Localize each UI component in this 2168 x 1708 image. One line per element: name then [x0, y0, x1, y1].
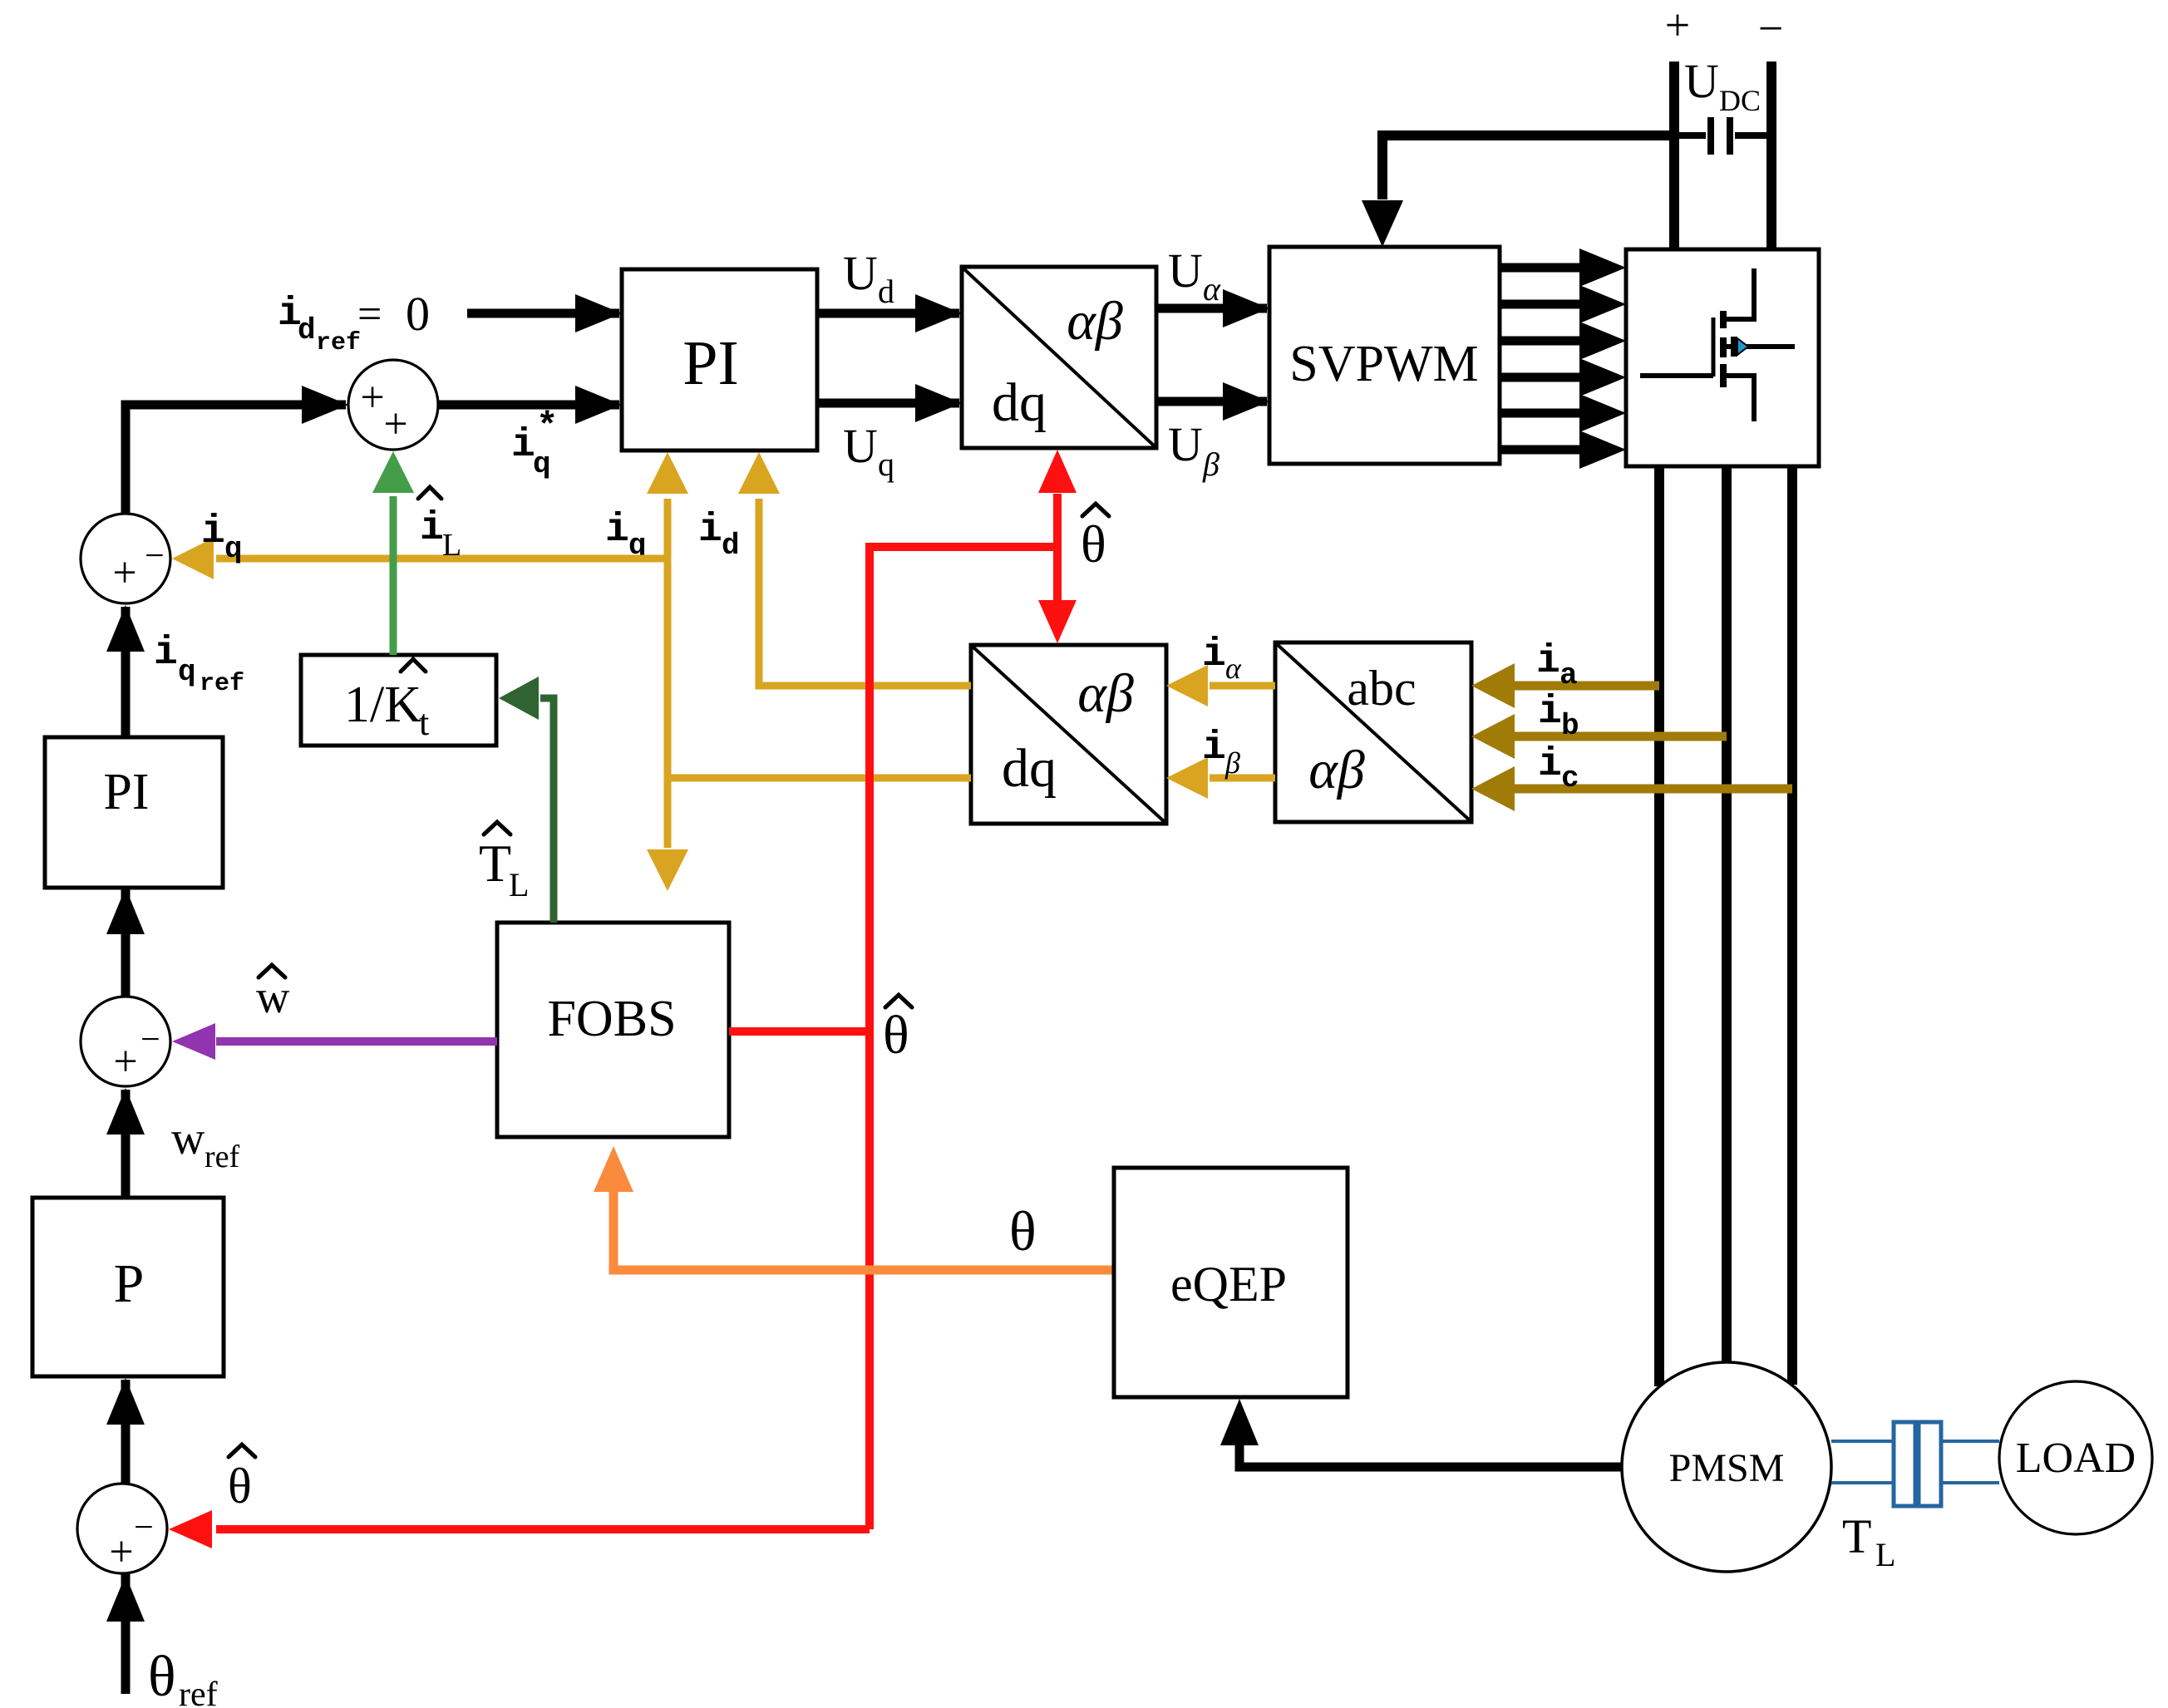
svg-text:PMSM: PMSM — [1669, 1446, 1785, 1490]
wire theta_ref input — [106, 1573, 145, 1694]
sign + in S3 — [113, 1038, 137, 1085]
svg-text:+: + — [360, 374, 384, 421]
svg-text:FOBS: FOBS — [547, 991, 676, 1047]
label U_q — [843, 419, 894, 483]
wire S2 to S1 — [126, 386, 348, 514]
DC bus negative rail — [1766, 62, 1776, 249]
wire i_a tap to abc box — [1471, 663, 1659, 708]
svg-text:−: − — [145, 537, 165, 575]
svg-text:i: i — [511, 423, 535, 468]
svg-text:d: d — [298, 313, 316, 347]
wire i_alpha abc to ab-dq box — [1166, 665, 1275, 706]
svg-text:i: i — [1202, 633, 1226, 677]
wire speed PI to S2 (i_q_ref) — [106, 605, 145, 737]
svg-text:U: U — [1684, 54, 1719, 108]
label U_DC — [1684, 54, 1761, 117]
block PI speed controller — [45, 737, 223, 888]
svg-text:i: i — [1538, 742, 1562, 787]
wire PMSM to eQEP — [1220, 1399, 1622, 1467]
svg-text:U: U — [843, 246, 878, 300]
svg-text:U: U — [843, 419, 878, 473]
label i_d_ref = 0 — [278, 287, 430, 357]
svg-text:αβ: αβ — [1308, 740, 1365, 800]
wire S1 to current PI (i_q*) — [438, 386, 622, 424]
label theta hat at S4 — [228, 1445, 255, 1514]
svg-text:dq: dq — [992, 372, 1047, 433]
label theta hat at FOBS — [883, 995, 912, 1066]
wire S4 to P block — [106, 1378, 145, 1484]
svg-text:T: T — [1842, 1509, 1871, 1563]
block FOBS observer — [497, 923, 729, 1137]
label i_q* — [511, 406, 558, 481]
svg-text:q: q — [178, 655, 196, 689]
wire PWM signal 2 SVPWM to inverter — [1500, 285, 1626, 323]
svg-text:U: U — [1168, 244, 1203, 298]
svg-text:eQEP: eQEP — [1170, 1257, 1287, 1312]
svg-text:i: i — [1202, 726, 1226, 770]
sign + upper in S1 — [360, 374, 384, 421]
svg-text:U: U — [1168, 417, 1203, 471]
wire i_c tap to abc box — [1471, 766, 1792, 811]
wire i_d feedback to current PI — [738, 452, 971, 686]
svg-text:θ: θ — [148, 1645, 176, 1708]
label T_L hat — [479, 822, 529, 903]
svg-text:q: q — [878, 445, 894, 483]
svg-text:αβ: αβ — [1067, 291, 1123, 352]
summing junction S4 (position error) — [77, 1484, 167, 1573]
svg-text:T: T — [479, 834, 511, 893]
svg-text:PI: PI — [682, 328, 739, 398]
wire S3 to speed PI — [106, 888, 145, 997]
wire U_alpha to SVPWM — [1156, 289, 1269, 327]
block dq to alphabeta voltage transform — [962, 267, 1156, 448]
svg-text:1/K: 1/K — [344, 677, 421, 733]
svg-text:+: + — [112, 549, 136, 597]
svg-text:−: − — [134, 1509, 154, 1547]
svg-text:β: β — [1224, 746, 1240, 780]
summing junction S3 (speed error) — [81, 997, 170, 1086]
sign - in S4 — [134, 1509, 154, 1547]
label theta at eQEP — [1009, 1199, 1037, 1263]
capacitor C DC-link — [1674, 117, 1771, 155]
wire theta eQEP to FOBS orange — [594, 1146, 1114, 1270]
label i_q_ref — [154, 631, 244, 698]
svg-text:ref: ref — [204, 1139, 240, 1174]
label - minus terminal — [1758, 3, 1783, 53]
wire i_b tap to abc box — [1471, 714, 1727, 759]
svg-text:θ: θ — [883, 1005, 909, 1066]
svg-text:q: q — [533, 447, 551, 481]
label i_alpha — [1202, 633, 1242, 685]
wire i_q feedback trunk to current PI — [647, 452, 971, 778]
wire theta hat red trunk — [169, 450, 1077, 1548]
svg-text:θ: θ — [1009, 1199, 1037, 1263]
wire PWM signal 4 SVPWM to inverter — [1500, 358, 1626, 396]
label i_q upper — [605, 508, 647, 563]
wire PWM signal 1 SVPWM to inverter — [1500, 249, 1626, 287]
label w hat — [256, 965, 290, 1023]
wire PWM signal 5 SVPWM to inverter — [1500, 394, 1626, 432]
label theta hat top — [1081, 504, 1109, 573]
svg-text:ref: ref — [179, 1676, 218, 1708]
label + plus terminal — [1665, 0, 1690, 50]
label i_a — [1536, 639, 1578, 692]
block P (position controller) — [32, 1198, 224, 1376]
svg-text:c: c — [1561, 761, 1579, 795]
svg-text:+: + — [383, 401, 407, 448]
shaft coupling to LOAD — [1941, 1441, 1999, 1483]
label i_d — [698, 508, 740, 563]
svg-text:0: 0 — [406, 287, 430, 341]
svg-text:abc: abc — [1347, 661, 1416, 716]
svg-text:+: + — [109, 1528, 133, 1576]
wire T_L hat FOBS to 1/Kt — [499, 677, 554, 923]
label i_beta — [1202, 726, 1240, 780]
wire i_d_ref input to current PI — [467, 294, 622, 332]
label U_alpha — [1168, 244, 1221, 308]
wire w hat FOBS to S3 — [172, 1023, 497, 1060]
coupling symbol — [1894, 1422, 1941, 1506]
sign - in S3 — [140, 1021, 160, 1059]
shaft PMSM to coupling — [1831, 1441, 1894, 1483]
wire U_q PI to dq-ab box — [817, 384, 962, 422]
svg-text:θ: θ — [1081, 514, 1106, 573]
DC bus positive rail — [1669, 62, 1679, 249]
wire phase c inverter to PMSM — [1787, 466, 1797, 1385]
svg-text:L: L — [442, 528, 461, 563]
block eQEP — [1114, 1168, 1348, 1397]
block 1/Kt gain — [301, 655, 496, 746]
wire i_q branch to S2 — [172, 538, 668, 579]
svg-text:SVPWM: SVPWM — [1289, 336, 1478, 392]
label w_ref — [171, 1113, 240, 1174]
svg-text:L: L — [509, 866, 529, 903]
svg-text:t: t — [419, 702, 429, 743]
svg-text:i: i — [1538, 690, 1562, 735]
wire U_beta to SVPWM — [1156, 382, 1269, 421]
svg-text:−: − — [1758, 3, 1783, 53]
svg-text:d: d — [878, 273, 894, 310]
svg-text:w: w — [171, 1113, 205, 1164]
svg-text:PI: PI — [103, 764, 149, 820]
summing junction S2 (current error) — [81, 514, 170, 603]
label i_c — [1538, 742, 1579, 795]
svg-text:i: i — [154, 631, 178, 676]
wire phase a inverter to PMSM — [1654, 466, 1664, 1386]
transistor Q1 MOSFET symbol — [1640, 268, 1795, 421]
wire PWM signal 6 SVPWM to inverter — [1500, 431, 1626, 469]
sign + in S2 — [112, 549, 136, 597]
wire DC bus feedback to SVPWM — [1362, 135, 1674, 247]
wire i_q branch down to FOBS — [647, 778, 688, 891]
label i_q at S2 — [201, 509, 243, 566]
svg-text:θ: θ — [228, 1459, 252, 1514]
svg-text:+: + — [113, 1038, 137, 1085]
wire P to S3 (w_ref) — [106, 1088, 145, 1198]
svg-text:α: α — [1225, 652, 1242, 685]
wire PWM signal 3 SVPWM to inverter — [1500, 322, 1626, 360]
label T_L — [1842, 1509, 1895, 1573]
svg-text:dq: dq — [1002, 738, 1057, 799]
svg-text:+: + — [1665, 0, 1690, 50]
svg-text:ref: ref — [316, 329, 361, 357]
svg-text:=: = — [357, 291, 382, 338]
svg-text:i: i — [420, 506, 444, 551]
svg-text:P: P — [114, 1253, 145, 1314]
block abc to alphabeta transform — [1275, 642, 1471, 822]
svg-text:DC: DC — [1719, 84, 1761, 117]
svg-text:ref: ref — [200, 670, 244, 698]
svg-text:L: L — [1875, 1536, 1895, 1573]
block PI current controller — [622, 269, 817, 450]
machine PMSM — [1622, 1362, 1831, 1572]
block alphabeta to dq current transform — [971, 645, 1166, 824]
sign + in S4 — [109, 1528, 133, 1576]
wire U_d PI to dq-ab box — [817, 294, 962, 332]
svg-text:β: β — [1202, 445, 1219, 483]
sign - in S2 — [145, 537, 165, 575]
svg-text:α: α — [1203, 270, 1221, 308]
svg-text:b: b — [1561, 709, 1579, 743]
svg-text:i: i — [201, 509, 225, 554]
svg-text:*: * — [536, 406, 558, 448]
label i_L hat — [418, 487, 461, 563]
machine LOAD — [1999, 1381, 2152, 1534]
block SVPWM — [1269, 247, 1500, 464]
svg-text:αβ: αβ — [1077, 663, 1134, 724]
svg-text:a: a — [1559, 658, 1578, 692]
label U_d — [843, 246, 894, 310]
wire i_L hat 1/Kt to S1 — [372, 451, 414, 655]
svg-text:i: i — [1536, 639, 1560, 684]
svg-text:q: q — [224, 532, 243, 566]
label U_beta — [1168, 417, 1219, 483]
block inverter — [1626, 249, 1819, 466]
wire i_beta abc to ab-dq box — [1166, 757, 1275, 799]
label i_b — [1538, 690, 1579, 743]
svg-text:i: i — [605, 508, 629, 553]
wire phase b inverter to PMSM — [1722, 466, 1732, 1364]
label theta_ref — [148, 1645, 218, 1708]
summing junction S1 (iq* sum) — [348, 360, 438, 450]
svg-text:d: d — [722, 529, 740, 563]
sign + lower in S1 — [383, 401, 407, 448]
svg-text:−: − — [140, 1021, 160, 1059]
svg-text:LOAD: LOAD — [2016, 1435, 2136, 1482]
svg-text:i: i — [698, 508, 722, 553]
